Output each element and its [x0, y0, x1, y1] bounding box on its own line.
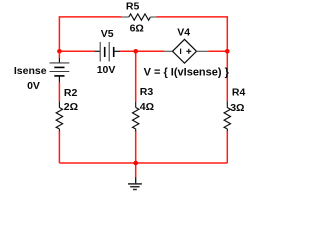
svg-text:R5: R5 [126, 0, 140, 12]
ground symbol [128, 177, 142, 189]
svg-text:R3: R3 [140, 86, 154, 98]
svg-text:3Ω: 3Ω [230, 102, 244, 114]
wire: right rail below R4 to bottom net [226, 131, 228, 163]
svg-text:V5: V5 [101, 28, 114, 40]
resistor R3 (4 ohm, vertical, middle branch) [133, 102, 139, 132]
voltage source Isense (0V battery, vertical, left rail) [50, 58, 70, 83]
node A junction dot (left rail / middle net) [57, 49, 62, 54]
wire: middle net from V4 to node C on right rail [208, 50, 227, 52]
svg-text:2Ω: 2Ω [64, 101, 78, 113]
wire: top net, left segment from left rail corner to R5 [59, 17, 121, 51]
node D junction dot (bottom net / ground) [133, 161, 138, 166]
wire: middle net from V5 to node B and V4 [120, 50, 164, 52]
svg-text:R4: R4 [232, 87, 246, 99]
svg-text:10V: 10V [97, 64, 116, 76]
svg-text:0V: 0V [27, 80, 40, 92]
resistor R2 (2 ohm, vertical, left rail) [56, 101, 62, 131]
wire: R3 branch below R3 to bottom net [135, 131, 137, 163]
wire: ground stub below bottom net [135, 163, 137, 178]
wire: short left rail top segment above Isense [58, 51, 60, 58]
wire: middle net from node A to V5 [59, 50, 94, 52]
wire: top net, right segment from R5 to right rail down to R4 [157, 17, 228, 101]
wire: R3 branch from node B down to R3 [135, 51, 137, 101]
resistor R5 (6 ohm, horizontal, top net) [121, 14, 157, 20]
wire: left rail below Isense battery to R2 [58, 82, 60, 101]
svg-text:6Ω: 6Ω [130, 22, 144, 34]
svg-text:R2: R2 [64, 87, 78, 99]
node B junction dot (V5 / V4 / R3 branch) [133, 49, 138, 54]
svg-text:V4: V4 [177, 27, 190, 39]
svg-text:Isense: Isense [14, 65, 47, 77]
voltage source V5 (10V battery, horizontal, middle net) [95, 42, 121, 62]
resistor R4 (3 ohm, vertical, right rail) [224, 101, 230, 131]
svg-text:4Ω: 4Ω [140, 101, 154, 113]
dependent source V4 (diamond, middle net) [164, 39, 208, 63]
wire: left rail below R2 to bottom net [58, 131, 60, 163]
svg-text:V = { I(vIsense) }: V = { I(vIsense) } [144, 67, 230, 79]
wire: bottom ground net [59, 162, 227, 164]
node C junction dot (V4 / right rail) [225, 49, 230, 54]
